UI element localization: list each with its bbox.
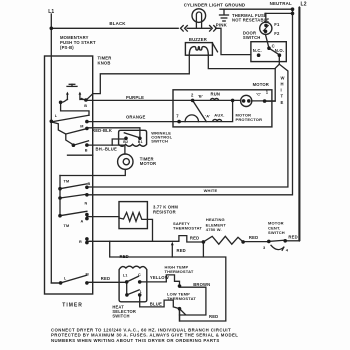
svg-text:RED-BLK: RED-BLK [92, 128, 112, 133]
svg-text:B: B [84, 104, 87, 108]
svg-text:THERMOSTAT: THERMOSTAT [165, 269, 194, 274]
svg-text:AUX.: AUX. [214, 113, 224, 118]
svg-text:RED: RED [288, 234, 297, 239]
svg-text:4750 W.: 4750 W. [206, 227, 222, 232]
svg-text:WHITE: WHITE [204, 188, 218, 193]
svg-text:N.O.: N.O. [275, 48, 284, 53]
svg-text:RED: RED [190, 235, 199, 240]
svg-text:SWITCH: SWITCH [151, 138, 168, 143]
svg-text:RED: RED [177, 248, 186, 253]
svg-text:PROTECTOR: PROTECTOR [236, 117, 263, 122]
svg-text:F1: F1 [274, 22, 280, 27]
svg-text:MOTOR: MOTOR [253, 82, 269, 87]
svg-text:E: E [281, 100, 284, 105]
svg-text:CYLINDER LIGHT: CYLINDER LIGHT [184, 2, 223, 7]
svg-text:THERMOSTAT: THERMOSTAT [167, 296, 196, 301]
svg-text:PURPLE: PURPLE [126, 95, 144, 100]
svg-text:YELLOW: YELLOW [150, 275, 169, 280]
svg-text:2: 2 [191, 92, 194, 97]
svg-text:T: T [281, 94, 284, 99]
svg-text:N.C.: N.C. [253, 48, 262, 53]
svg-text:3: 3 [263, 245, 266, 250]
svg-text:BROWN: BROWN [193, 282, 210, 287]
svg-text:L2: L2 [301, 2, 307, 8]
svg-text:1: 1 [140, 290, 142, 294]
svg-text:M: M [86, 273, 89, 277]
svg-text:'C': 'C' [256, 91, 261, 96]
svg-text:4: 4 [286, 247, 289, 252]
svg-text:TIMER: TIMER [62, 303, 83, 309]
svg-text:RED: RED [209, 314, 218, 319]
svg-text:'B': 'B' [198, 93, 203, 98]
svg-text:THERMOSTAT: THERMOSTAT [173, 226, 202, 231]
svg-text:BLACK: BLACK [109, 21, 126, 26]
svg-text:SWITCH: SWITCH [243, 35, 261, 40]
svg-text:I: I [281, 88, 282, 93]
svg-text:RESISTOR: RESISTOR [153, 209, 176, 214]
svg-text:B2: B2 [123, 140, 128, 144]
svg-text:B1: B1 [138, 140, 143, 144]
svg-text:SWITCH: SWITCH [112, 314, 129, 319]
svg-text:HEATING: HEATING [206, 217, 225, 222]
svg-text:A: A [81, 220, 84, 224]
svg-text:L1: L1 [48, 9, 54, 15]
svg-text:BUZZER: BUZZER [189, 37, 207, 42]
svg-text:7: 7 [176, 113, 179, 118]
svg-text:M: M [80, 125, 83, 129]
svg-text:GROUND: GROUND [225, 3, 246, 8]
svg-text:RED: RED [101, 276, 110, 281]
svg-text:L: L [64, 277, 67, 281]
svg-text:W: W [281, 75, 285, 80]
svg-text:SWITCH: SWITCH [268, 230, 285, 235]
svg-text:C: C [138, 273, 141, 277]
svg-text:H: H [281, 82, 284, 87]
svg-text:BH.-BLUE: BH.-BLUE [96, 146, 117, 151]
svg-text:NUMBERS WHEN WRITING ABOUT THI: NUMBERS WHEN WRITING ABOUT THIS DRYER OR… [51, 338, 220, 343]
svg-text:PINK: PINK [216, 22, 228, 27]
svg-text:R: R [79, 240, 82, 244]
svg-text:RED: RED [249, 235, 258, 240]
svg-text:ORANGE: ORANGE [126, 115, 145, 120]
svg-text:KNOB: KNOB [98, 60, 111, 65]
svg-text:RUN: RUN [211, 91, 221, 96]
svg-text:RED: RED [120, 254, 129, 259]
svg-text:L: L [55, 114, 58, 118]
svg-text:MOTOR: MOTOR [140, 161, 156, 166]
svg-text:N: N [85, 202, 88, 206]
svg-text:'A': 'A' [205, 113, 210, 118]
svg-text:BLUE: BLUE [150, 301, 162, 306]
svg-text:F2: F2 [274, 31, 280, 36]
svg-text:NOT RESETABLE: NOT RESETABLE [232, 18, 269, 23]
svg-text:(PS-B): (PS-B) [60, 45, 74, 50]
svg-text:NEUTRAL: NEUTRAL [270, 1, 292, 6]
svg-text:B: B [85, 149, 88, 153]
svg-text:TM: TM [64, 179, 70, 183]
svg-text:L1: L1 [123, 273, 128, 277]
svg-text:TM: TM [64, 224, 70, 228]
svg-text:B: B [88, 182, 91, 186]
